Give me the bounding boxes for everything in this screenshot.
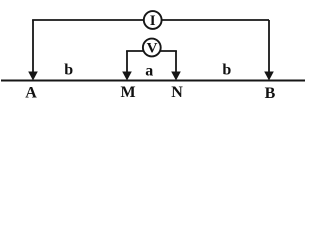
svg-text:A: A	[25, 85, 37, 102]
svg-text:B: B	[265, 85, 276, 102]
wire: voltmeter left stub	[126, 50, 144, 52]
svg-text:V: V	[147, 40, 158, 56]
wire: top horizontal right of ammeter	[161, 19, 269, 21]
wire: N vertical riser	[175, 51, 177, 73]
voltmeter U2 circle	[143, 39, 161, 57]
svg-text:M: M	[120, 84, 135, 101]
svg-text:I: I	[150, 13, 156, 29]
wire: top horizontal left of ammeter	[32, 19, 144, 21]
wire: M vertical riser	[126, 51, 128, 73]
svg-text:b: b	[64, 61, 73, 78]
ground surface line	[1, 80, 305, 82]
ammeter U1 circle	[144, 11, 162, 29]
svg-text:N: N	[171, 84, 183, 101]
electrode arrow B	[264, 72, 274, 81]
wire: B vertical drop	[268, 20, 270, 73]
svg-text:a: a	[145, 63, 153, 80]
svg-text:b: b	[222, 61, 231, 78]
electrode arrow A	[28, 72, 38, 81]
electrode arrow M	[122, 72, 132, 81]
wire: A vertical riser	[32, 20, 34, 73]
electrode arrow N	[171, 72, 181, 81]
wire: voltmeter right stub	[159, 50, 177, 52]
